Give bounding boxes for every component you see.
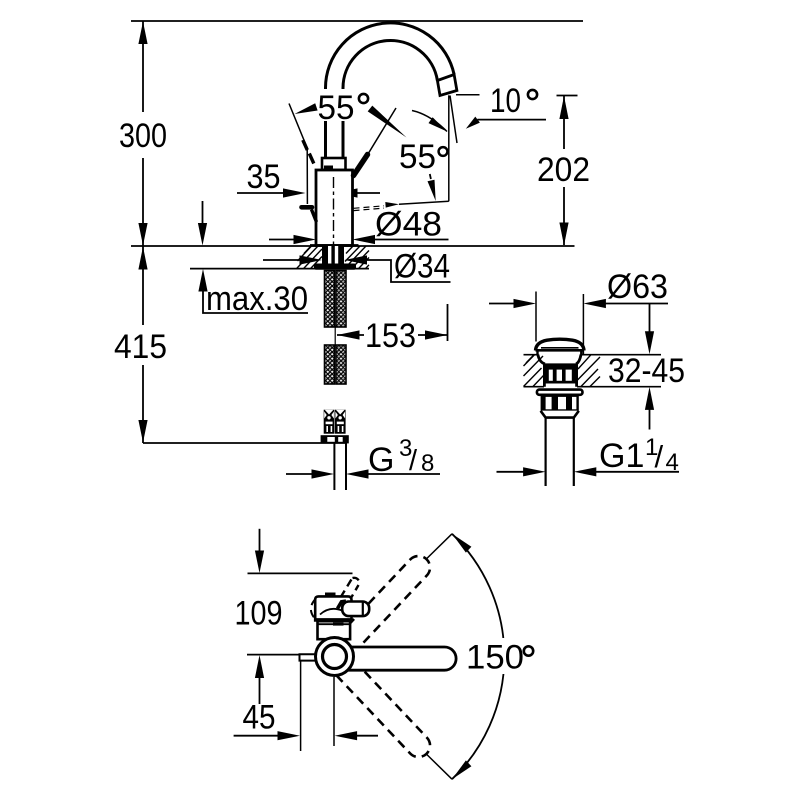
drain counter top line	[524, 354, 662, 356]
drain cap button line	[541, 347, 579, 349]
body center line	[333, 177, 335, 264]
dim 35 line right	[356, 192, 380, 194]
svg-text:415: 415	[114, 328, 167, 366]
text 55 left background	[315, 89, 373, 121]
plan lever root	[338, 601, 347, 608]
aerator	[437, 75, 457, 96]
svg-text:55: 55	[399, 138, 436, 176]
extension line V1	[300, 660, 302, 752]
svg-text:/: /	[409, 445, 418, 477]
drain hatching left	[524, 355, 544, 387]
arrow right at extension	[283, 188, 306, 197]
dim 153	[337, 334, 364, 336]
svg-text:G1: G1	[599, 437, 644, 475]
spray dashed leader	[354, 206, 385, 211]
connector base plate	[321, 435, 349, 443]
plan cap	[315, 596, 351, 620]
plan cap bottom band	[315, 618, 350, 621]
dim 34 left	[263, 259, 300, 261]
drain tailpipe	[544, 418, 546, 486]
handle	[354, 155, 368, 176]
svg-text:35: 35	[247, 158, 281, 196]
dim G38 left	[286, 473, 312, 475]
dim G114 right	[574, 467, 597, 476]
outlet vertical reference	[448, 95, 450, 201]
150 arc arrow bottom	[452, 760, 471, 779]
pull rod knob	[302, 205, 313, 210]
supply pipe	[333, 443, 335, 490]
drain hatching right	[578, 355, 601, 387]
arrow down at counter	[138, 223, 147, 246]
max.30 upper arrow	[202, 201, 204, 226]
drain cap dome	[536, 339, 585, 350]
counter top line	[131, 245, 575, 247]
top reference line	[131, 20, 583, 22]
10 leader line	[477, 119, 546, 121]
svg-text:300: 300	[119, 117, 167, 155]
svg-text:202: 202	[537, 151, 590, 189]
spout inner contour	[343, 41, 437, 158]
collar notch	[324, 166, 333, 171]
dim G114 left	[497, 471, 525, 473]
150 arc	[452, 534, 504, 779]
phantom tip extension lower	[427, 755, 452, 780]
phantom tip extension upper	[427, 534, 452, 559]
55 right arc arrowhead	[429, 117, 448, 131]
svg-text:45: 45	[243, 699, 276, 737]
phantom handle upper	[326, 556, 430, 664]
55 right leader arrow	[428, 180, 436, 201]
dim 109 bottom arrow	[255, 655, 264, 678]
plan top reference line	[248, 572, 353, 574]
55 left bold arrow	[368, 106, 407, 138]
counter bottom line	[190, 268, 369, 270]
plan neck line	[318, 623, 351, 625]
svg-text:Ø63: Ø63	[607, 268, 668, 306]
text 150 background	[463, 638, 545, 674]
bottom reference line 415	[143, 442, 347, 444]
arrow left at center	[335, 188, 358, 197]
phantom handle lower	[326, 649, 430, 757]
svg-text:Ø34: Ø34	[394, 248, 450, 286]
plan outer circle	[316, 638, 354, 676]
degree 10	[528, 90, 537, 99]
plan neck tick	[333, 623, 344, 626]
55 right arc	[412, 111, 447, 132]
dim 63 right	[583, 299, 606, 308]
outlet 10deg reference	[450, 96, 457, 144]
lever phantom left arc	[311, 599, 317, 621]
svg-text:55: 55	[318, 89, 355, 127]
svg-text:32-45: 32-45	[608, 352, 685, 390]
svg-text:153: 153	[365, 317, 416, 355]
drain counter bottom line	[524, 386, 662, 388]
plan stub	[300, 654, 317, 660]
handle axis reference line	[368, 108, 396, 154]
arrow down at bottom	[138, 420, 147, 443]
tip tick line	[456, 94, 480, 96]
d63 extension left	[535, 292, 537, 342]
plan neck	[318, 621, 351, 639]
phantom handle dashes	[303, 140, 314, 164]
55 left arrowhead	[295, 103, 318, 114]
body	[316, 170, 353, 246]
lever phantom dashes	[341, 578, 360, 602]
drain window band	[544, 367, 576, 384]
dim 35 line left	[237, 192, 284, 194]
55 right leader stub	[430, 174, 431, 179]
dim 63 left	[489, 303, 514, 305]
plan cap notch	[325, 593, 336, 597]
hose section B	[325, 345, 347, 384]
dim 34 right	[345, 255, 368, 264]
dim 109 top arrow	[259, 529, 261, 551]
drain cap underside	[536, 349, 585, 352]
svg-text:109: 109	[235, 595, 283, 633]
dim 32-45 lower	[645, 387, 654, 410]
counter hatching right	[345, 246, 370, 269]
shank	[322, 246, 344, 265]
dim G38 right	[346, 469, 369, 478]
drain nut body	[541, 395, 579, 411]
plan lower reference line	[247, 654, 304, 656]
hose connector left	[324, 410, 335, 434]
hose center line	[334, 326, 336, 346]
spray line to vertical	[399, 201, 449, 204]
svg-text:150: 150	[466, 639, 524, 677]
drain locknut washer	[537, 390, 583, 395]
locknut	[314, 264, 356, 270]
pull rod diagonal	[312, 210, 317, 223]
svg-text:4: 4	[666, 449, 679, 476]
plan inner circle	[323, 645, 347, 669]
arrow up below counter	[138, 247, 147, 270]
svg-text:8: 8	[421, 450, 434, 477]
dim 48 right	[353, 235, 376, 244]
counter hatching left	[297, 246, 323, 269]
spout outer contour	[325, 23, 454, 158]
extension line 35	[289, 104, 307, 205]
degree 150	[524, 646, 533, 655]
degree right 55	[439, 147, 448, 156]
svg-text:max.30: max.30	[206, 280, 308, 318]
drain neck band	[543, 363, 578, 367]
spray arrowhead	[385, 202, 399, 208]
plan handle stadium	[346, 647, 456, 670]
d63 extension right	[582, 294, 584, 355]
left dimension line 300/415	[142, 21, 144, 443]
10 arrowhead	[466, 117, 480, 129]
plan lever end line	[362, 602, 364, 616]
dim 48 left	[269, 239, 294, 241]
drain skirt	[541, 411, 579, 418]
drain body sides	[544, 364, 576, 387]
plan dome arc	[320, 609, 343, 615]
150 arc arrow top	[452, 534, 471, 553]
degree left 55	[359, 94, 368, 103]
dim 45	[234, 735, 279, 737]
plan lever	[342, 602, 369, 617]
svg-text:10: 10	[490, 82, 521, 120]
extension line V2	[333, 677, 335, 746]
svg-text:G: G	[368, 441, 394, 479]
hose section A	[325, 271, 347, 328]
drain neck taper	[538, 355, 581, 365]
hose connector right	[335, 410, 346, 434]
collar	[322, 158, 346, 170]
drain cap skirt	[538, 350, 582, 354]
dim 32-45 upper	[649, 304, 651, 332]
dim 202	[557, 95, 578, 97]
svg-text:/: /	[655, 439, 664, 474]
svg-text:Ø48: Ø48	[375, 206, 442, 244]
arrow up at top	[138, 22, 147, 45]
max.30 lower arrow and leader	[198, 269, 207, 292]
base bottom edge	[310, 244, 359, 247]
